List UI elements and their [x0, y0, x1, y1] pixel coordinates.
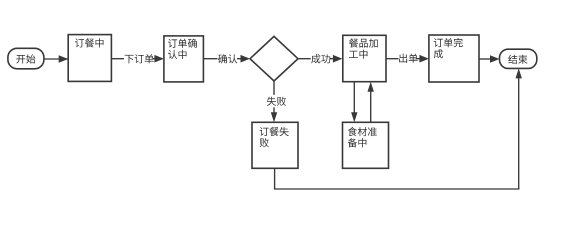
text 餐品加 (line 1): [349, 38, 378, 47]
arrowhead into 订餐失败: [271, 112, 277, 122]
wire bottom rail to 结束: [274, 188, 520, 190]
decision diamond: [250, 36, 298, 81]
wire up to 结束: [518, 76, 520, 189]
wire 餐品加工中 to 出单 label: [386, 58, 399, 60]
process box 订单确认中: [164, 36, 204, 82]
arrowhead into decision diamond: [241, 55, 251, 63]
text 食材准 (line 1): [348, 127, 377, 136]
text 认中 (line 2): [168, 50, 187, 59]
wire diamond down to 失败 label: [273, 81, 275, 95]
wire 订餐失败 down: [274, 168, 276, 189]
arrowhead into 订单完成: [419, 55, 429, 63]
wire 订单完成 to 结束: [479, 58, 492, 60]
wire 下订单 label to arrow: [153, 58, 156, 60]
wire 订单确认中 to 确认 label: [203, 58, 217, 60]
label 失败: [267, 97, 286, 106]
wire 确认 label to arrow: [237, 58, 242, 60]
arrowhead into 结束 bottom: [516, 68, 522, 78]
text 成 (line 2): [434, 49, 443, 58]
process box 餐品加工中: [343, 35, 386, 81]
terminator node 结束: [500, 49, 537, 68]
wire 餐品加工中 down to 食材准备中: [353, 82, 355, 115]
wire 出单 label to arrow: [416, 58, 421, 60]
label 确认: [218, 54, 237, 63]
text 订餐中: [75, 38, 104, 47]
text 工中 (line 2): [349, 50, 368, 59]
arrowhead into 结束: [490, 55, 500, 63]
text 开始: [16, 54, 35, 63]
text 备中 (line 2): [348, 138, 367, 147]
label 成功: [311, 54, 330, 63]
text 结束: [508, 55, 527, 64]
process box 订单完成: [429, 35, 479, 82]
wire 开始 to 订餐中: [44, 58, 68, 60]
wire 失败 label to arrow: [273, 107, 275, 113]
process box 订餐失败: [252, 122, 298, 168]
text 订单确 (line 1): [168, 39, 197, 48]
arrowhead into 食材准备中: [351, 112, 357, 122]
process box 食材准备中: [343, 122, 389, 168]
arrowhead into 餐品加工中: [333, 55, 343, 63]
wire 成功 label to arrow: [330, 58, 334, 60]
wire diamond to 成功 label: [298, 58, 311, 60]
text 败 (line 2): [260, 138, 269, 147]
arrowhead into 餐品加工中 bottom: [368, 82, 374, 92]
label 出单: [399, 54, 418, 63]
arrowhead into 订餐中: [59, 55, 68, 63]
process box 订餐中: [68, 35, 111, 82]
text 订餐失 (line 1): [260, 127, 289, 136]
wire 食材准备中 up to 餐品加工中: [370, 90, 372, 123]
wire 订餐中 to 下订单 label: [111, 58, 124, 60]
text 订单完 (line 1): [434, 38, 463, 47]
terminator node 开始: [8, 48, 44, 69]
label 下订单: [125, 54, 154, 63]
arrowhead into 订单确认中: [154, 55, 164, 63]
